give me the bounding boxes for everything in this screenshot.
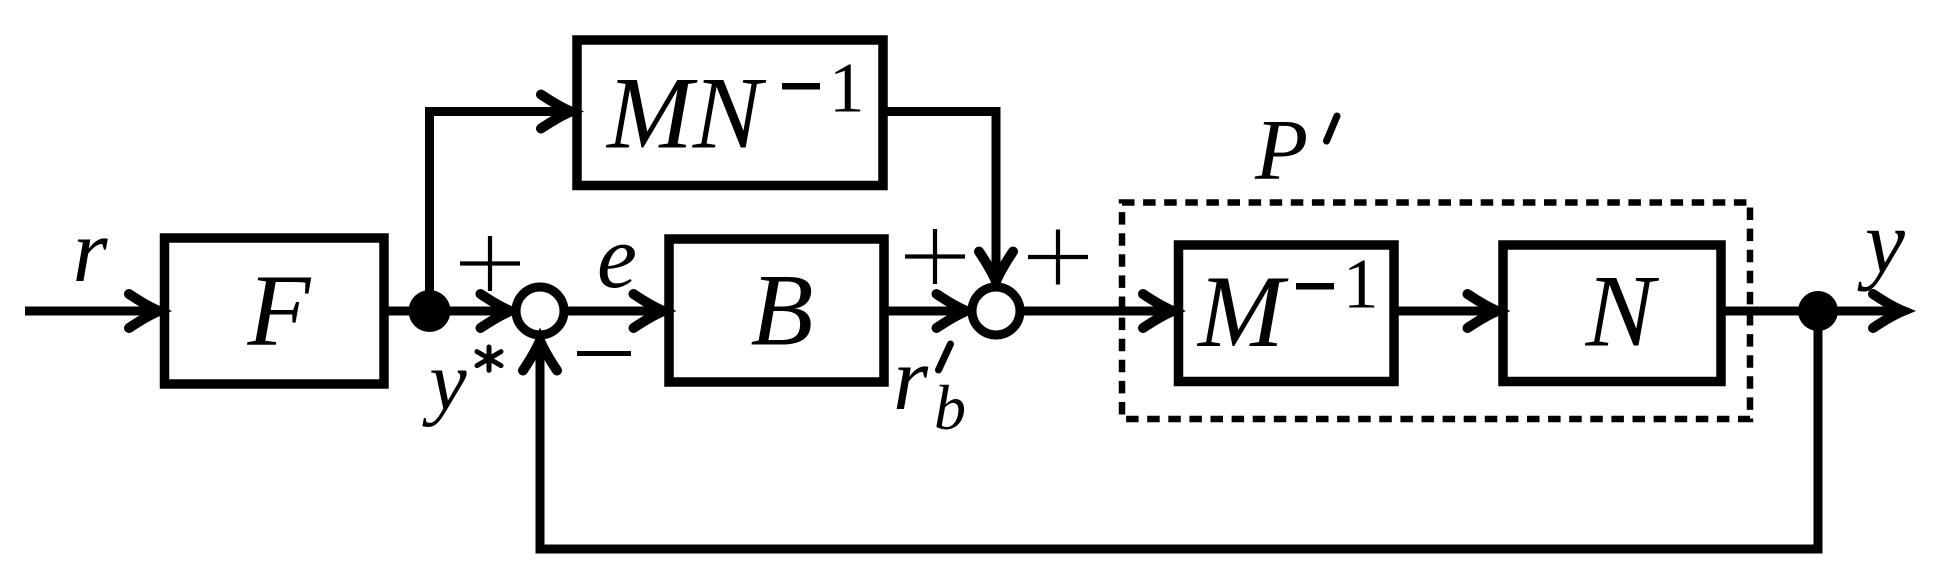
wire: input r arrow into F [25, 294, 159, 328]
svg-text:B: B [751, 254, 814, 368]
svg-text:y: y [1857, 193, 1905, 292]
wire: B to summing junction S2 [884, 294, 967, 328]
svg-text:r: r [72, 202, 108, 301]
wire: M^-1 to N [1394, 294, 1498, 328]
block B [669, 239, 884, 382]
svg-text:P: P [1254, 101, 1308, 198]
svg-text:F: F [247, 254, 312, 368]
block F [165, 238, 385, 384]
dashed box P' [1122, 203, 1750, 420]
summing junction S1 [516, 287, 564, 335]
wire: S2 into M^-1 [1020, 294, 1173, 328]
node A junction dot after F [409, 290, 451, 332]
plus sign at S1 [460, 236, 520, 291]
plus sign left of S2 [905, 229, 965, 284]
wire: node A up and right into MN^-1 [430, 95, 572, 316]
label y* [421, 335, 501, 428]
block M^-1 [1179, 245, 1395, 382]
wire: F to summing junction S1 [384, 294, 511, 328]
node B output junction dot [1798, 291, 1838, 331]
wire: N to output node [1721, 307, 1818, 316]
svg-text:M: M [1196, 255, 1289, 369]
summing junction S2 [972, 287, 1020, 335]
svg-text:1: 1 [1343, 246, 1379, 324]
label P' [1254, 101, 1337, 198]
svg-text:N: N [1585, 255, 1660, 369]
svg-text:b: b [934, 372, 966, 443]
wire: S1 to B with label e [564, 294, 664, 328]
svg-text:MN: MN [605, 56, 767, 170]
block MN^-1 [577, 40, 883, 186]
block N [1503, 245, 1721, 382]
label r'_b [893, 330, 966, 443]
plus sign right of S2 [1028, 230, 1088, 285]
svg-text:1: 1 [829, 50, 865, 128]
wire: MN^-1 output right then down into summing junction S2 [883, 112, 1013, 282]
svg-text:r: r [893, 330, 929, 429]
wire: output arrow y [1818, 294, 1903, 328]
wire: feedback from output node down, left, and up into S1 [523, 311, 1818, 549]
minus sign at S1 [577, 351, 631, 356]
svg-text:e: e [597, 208, 637, 307]
